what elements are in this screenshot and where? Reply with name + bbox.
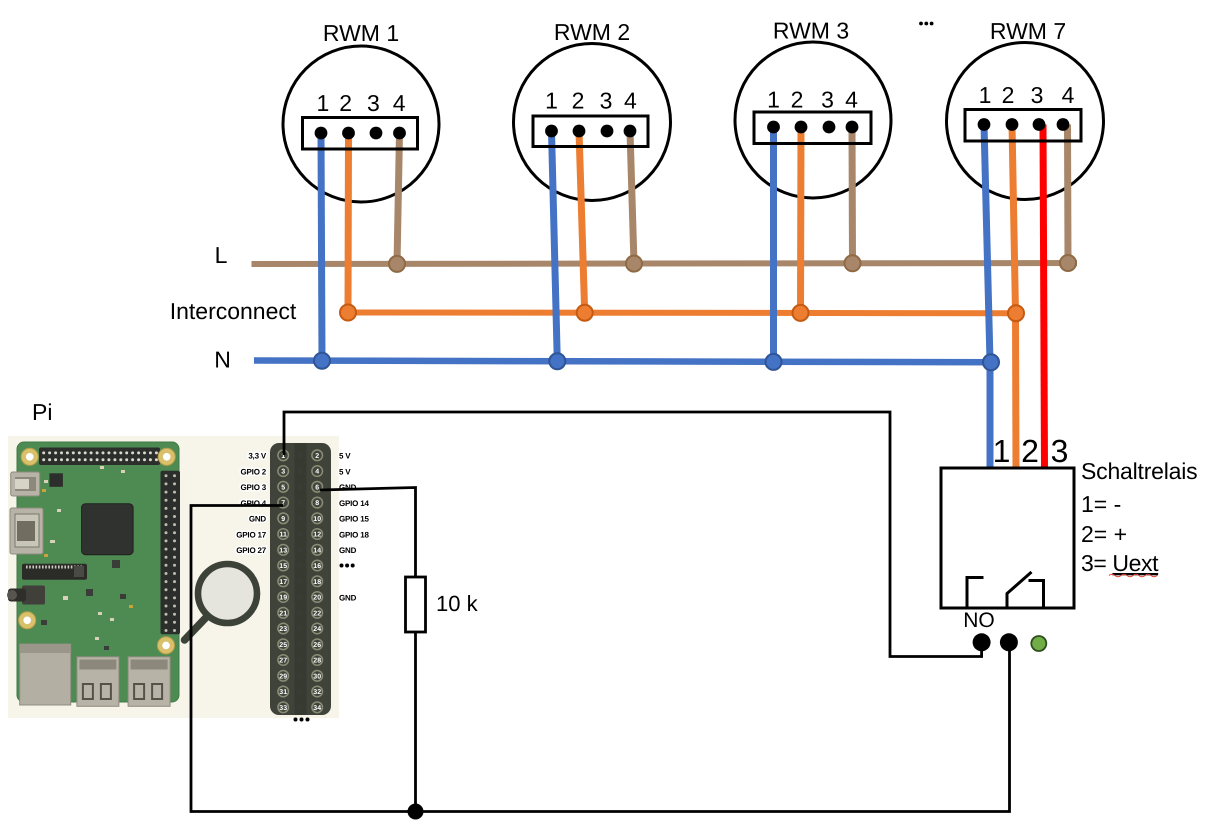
wire RWM2 pin2 to Interconnect bus (579, 131, 585, 313)
junction RWM3 / L bus (845, 255, 861, 271)
svg-text:GPIO 27: GPIO 27 (236, 546, 266, 555)
svg-text:22: 22 (313, 610, 321, 617)
svg-text:RWM 2: RWM 2 (554, 19, 630, 45)
junction RWM3 / N bus (766, 354, 782, 370)
svg-text:26: 26 (313, 642, 321, 649)
svg-text:3: 3 (1031, 82, 1044, 108)
svg-text:15: 15 (279, 563, 287, 570)
wire L bus (brown) (252, 263, 1078, 264)
relay NO contact symbol: fixed contact right (1029, 581, 1044, 608)
svg-text:24: 24 (313, 626, 321, 633)
svg-text:5 V: 5 V (339, 467, 351, 476)
Raspberry Pi photo background (8, 436, 339, 718)
svg-text:16: 16 (313, 563, 321, 570)
RWM 2 pin 2 dot (573, 125, 586, 138)
RWM 7 pin 4 dot (1057, 118, 1070, 131)
smoke detector RWM 7 body (947, 43, 1104, 200)
svg-text:11: 11 (279, 532, 287, 539)
svg-text:17: 17 (279, 579, 287, 586)
GPIO pin labels left column (236, 452, 267, 556)
wire Interconnect bus (orange) (348, 310, 1016, 317)
wire N bus (blue) (254, 361, 992, 363)
svg-text:4: 4 (1062, 82, 1075, 108)
svg-text:GPIO 15: GPIO 15 (339, 515, 369, 524)
relay NO contact symbol: fixed contact left (967, 578, 984, 608)
wire RWM7 pin4 to L bus (1064, 125, 1072, 264)
junction RWM2 / Interconnect bus (577, 305, 593, 321)
svg-text:2: 2 (572, 88, 585, 114)
svg-text:N: N (214, 347, 231, 373)
smoke detector RWM 1 body (283, 46, 439, 202)
svg-text:2: 2 (339, 90, 352, 116)
svg-text:2= +: 2= + (1081, 521, 1127, 547)
relay NO output terminal dot (left) (973, 633, 991, 651)
svg-text:1: 1 (993, 433, 1011, 469)
wire RWM2 pin1 to N bus (552, 131, 558, 362)
svg-text:30: 30 (313, 673, 321, 680)
wire RWM3 pin2 to Interconnect bus (797, 127, 805, 313)
svg-text:25: 25 (279, 642, 287, 649)
svg-text:10: 10 (313, 516, 321, 523)
svg-text:3= Uext: 3= Uext (1081, 550, 1159, 576)
svg-text:14: 14 (313, 547, 321, 554)
svg-text:5 V: 5 V (339, 452, 351, 461)
RWM 1 pin 3 dot (370, 127, 383, 140)
RWM 2 terminal block (533, 116, 648, 147)
svg-text:GPIO 17: GPIO 17 (236, 530, 266, 539)
smoke detector RWM 2 body (514, 44, 671, 201)
svg-text:32: 32 (313, 689, 321, 696)
junction RWM7 / Interconnect bus (1008, 305, 1024, 321)
wire RWM1 pin4 to L bus (397, 133, 400, 264)
svg-text:L: L (215, 242, 228, 268)
svg-text:GPIO 3: GPIO 3 (241, 483, 267, 492)
resistor R1 10 k (406, 577, 426, 632)
RWM 2 pin 3 dot (601, 125, 614, 138)
svg-text:GPIO 14: GPIO 14 (339, 499, 369, 508)
svg-text:21: 21 (279, 610, 287, 617)
svg-text:GND: GND (339, 593, 357, 602)
svg-text:3: 3 (1051, 433, 1069, 469)
relay NO output terminal dot (right) (1000, 633, 1018, 651)
svg-text:GND: GND (249, 515, 267, 524)
svg-text:RWM 7: RWM 7 (990, 18, 1066, 44)
svg-text:1: 1 (979, 82, 992, 108)
svg-text:34: 34 (313, 705, 321, 712)
svg-text:10 k: 10 k (436, 591, 479, 616)
wire RWM7 pin2 through Interconnect bus to relay terminal 2 (1012, 125, 1016, 471)
svg-text:2: 2 (791, 87, 804, 113)
magnifier icon over Pi photo (185, 564, 258, 640)
svg-text:13: 13 (279, 547, 287, 554)
svg-text:12: 12 (313, 532, 321, 539)
junction RWM7 / L bus (1060, 255, 1076, 271)
svg-text:9: 9 (281, 516, 285, 523)
RWM 3 terminal block (754, 112, 871, 144)
RWM 3 pin 3 dot (823, 121, 836, 134)
wire RWM3 pin1 to N bus (770, 127, 777, 362)
svg-text:4: 4 (315, 469, 319, 476)
wire RWM1 pin2 to Interconnect bus (345, 133, 353, 313)
wire RWM7 pin3 to relay terminal 3 (1043, 125, 1045, 471)
svg-text:18: 18 (313, 579, 321, 586)
svg-text:Schaltrelais: Schaltrelais (1081, 458, 1198, 484)
svg-text:19: 19 (279, 595, 287, 602)
RWM 2 pin 4 dot (624, 125, 637, 138)
svg-text:1: 1 (545, 88, 558, 114)
svg-text:8: 8 (315, 500, 319, 507)
svg-text:3: 3 (821, 87, 834, 113)
svg-text:3: 3 (367, 90, 380, 116)
svg-text:1= -: 1= - (1081, 491, 1121, 517)
junction RWM1 / N bus (314, 353, 330, 369)
svg-text:20: 20 (313, 595, 321, 602)
relay U1 Schaltrelais box (941, 468, 1074, 608)
svg-text:31: 31 (279, 689, 287, 696)
wire RWM7 pin1 through N bus to relay terminal 1 (984, 125, 990, 471)
svg-text:GPIO 18: GPIO 18 (339, 530, 369, 539)
wire RWM3 pin4 to L bus (849, 127, 857, 263)
svg-text:2: 2 (1002, 82, 1015, 108)
GPIO pin labels right column (339, 452, 369, 603)
svg-text:28: 28 (313, 658, 321, 665)
svg-text:1: 1 (767, 87, 780, 113)
junction RWM7 / N bus (983, 354, 999, 370)
junction RWM2 / L bus (626, 256, 642, 272)
Raspberry Pi GPIO header pinout panel (270, 443, 331, 715)
RWM 1 pin 1 dot (315, 127, 328, 140)
svg-text:3: 3 (600, 88, 613, 114)
svg-text:NO: NO (963, 609, 995, 632)
wire from Pi pin 6 (GND) right and down through resistor to bottom wire (320, 488, 416, 812)
svg-text:5: 5 (281, 484, 285, 491)
junction dot at bottom wire / resistor leg (408, 804, 424, 820)
svg-text:1: 1 (317, 90, 330, 116)
svg-text:RWM 3: RWM 3 (773, 18, 849, 44)
svg-text:Interconnect: Interconnect (170, 298, 297, 324)
svg-text:RWM 1: RWM 1 (323, 20, 399, 46)
wire from Pi pin 1 (3,3 V) up and across to relay NO contact (284, 412, 982, 657)
svg-text:Pi: Pi (32, 399, 52, 425)
ellipsis between RWM 3 and RWM 7 (919, 22, 933, 26)
svg-text:3: 3 (281, 469, 285, 476)
relay status LED (green) (1031, 636, 1046, 651)
RWM 3 pin 2 dot (795, 121, 808, 134)
RWM 3 pin 1 dot (767, 121, 780, 134)
red spellcheck squiggle under Uext (1109, 574, 1157, 577)
junction RWM2 / N bus (549, 353, 565, 369)
relay NO contact symbol: switch arm (1007, 572, 1032, 608)
RWM 7 terminal block (965, 110, 1081, 142)
svg-text:GPIO 2: GPIO 2 (241, 467, 267, 476)
svg-text:2: 2 (315, 453, 319, 460)
RWM 1 pin 2 dot (342, 127, 355, 140)
wire RWM2 pin4 to L bus (630, 131, 634, 264)
svg-text:23: 23 (279, 626, 287, 633)
svg-text:29: 29 (279, 673, 287, 680)
Raspberry Pi board (7, 442, 180, 706)
RWM 3 pin 4 dot (846, 121, 859, 134)
RWM 7 pin 1 dot (978, 118, 991, 131)
svg-text:4: 4 (845, 87, 858, 113)
svg-text:4: 4 (624, 88, 637, 114)
RWM 1 pin 4 dot (393, 127, 406, 140)
svg-text:GND: GND (339, 546, 357, 555)
svg-text:3,3 V: 3,3 V (248, 452, 267, 461)
RWM 7 pin 2 dot (1006, 118, 1019, 131)
svg-text:4: 4 (393, 90, 406, 116)
svg-text:6: 6 (315, 484, 319, 491)
smoke detector RWM 3 body (735, 42, 891, 198)
wire from Pi pin 7 (GPIO 4) left, down and along the bottom to relay NO contact (191, 506, 1010, 812)
RWM 7 pin 3 dot (1033, 118, 1046, 131)
RWM 1 terminal block (303, 118, 418, 150)
junction RWM1 / L bus (389, 256, 405, 272)
RWM 2 pin 1 dot (545, 125, 558, 138)
wire RWM1 pin1 to N bus (321, 133, 322, 361)
junction RWM3 / Interconnect bus (793, 305, 809, 321)
svg-text:33: 33 (279, 705, 287, 712)
svg-text:2: 2 (1021, 433, 1039, 469)
ellipsis below GPIO header (294, 718, 310, 722)
svg-text:27: 27 (279, 658, 287, 665)
junction RWM1 / Interconnect bus (340, 305, 356, 321)
